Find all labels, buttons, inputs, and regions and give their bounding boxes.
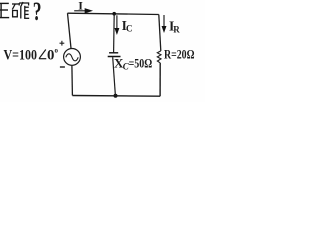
capacitor C1 bottom plate [108, 56, 121, 58]
svg-text:=50Ω: =50Ω [129, 55, 153, 70]
heading text (partial) 正確？ [0, 3, 9, 18]
middle wire upper [113, 14, 116, 53]
IR arrow [162, 15, 165, 31]
svg-text:V=100: V=100 [4, 47, 38, 63]
node junction dot bottom [114, 94, 118, 98]
char 確 [12, 2, 29, 19]
right wire upper [159, 15, 161, 51]
current I arrow [74, 9, 91, 13]
svg-text:R: R [173, 25, 180, 35]
svg-text:C: C [126, 24, 133, 34]
angle symbol [39, 50, 46, 59]
right wire lower [159, 63, 161, 96]
resistor R1 zigzag [157, 51, 161, 63]
left wire upper [68, 13, 72, 48]
sine wave inside source [66, 54, 78, 61]
char 正 (cut off at left edge) [0, 3, 2, 18]
left wire lower [71, 65, 74, 95]
AC source U1 circle [64, 49, 81, 66]
svg-text:?: ? [33, 0, 42, 26]
bottom wire [72, 95, 160, 98]
node junction dot top [112, 12, 116, 16]
svg-text:o: o [55, 47, 59, 55]
svg-text:0: 0 [47, 47, 54, 63]
svg-text:R=20Ω: R=20Ω [164, 47, 195, 61]
minus sign [60, 66, 65, 68]
Ic arrow [115, 15, 118, 33]
capacitor C1 top plate [109, 52, 118, 54]
plus sign [60, 41, 65, 46]
top wire [68, 13, 159, 14]
middle wire lower [113, 57, 116, 95]
